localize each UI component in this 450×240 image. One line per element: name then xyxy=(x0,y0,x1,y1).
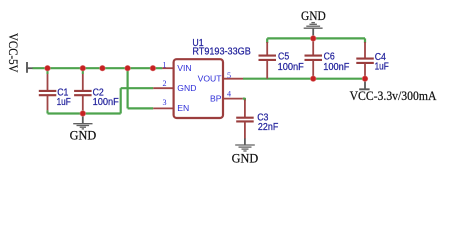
svg-text:C6: C6 xyxy=(324,52,335,63)
svg-text:5: 5 xyxy=(227,71,231,80)
wire bottom-left ground rail xyxy=(48,112,121,114)
wire GND pin riser xyxy=(120,88,122,113)
node junction dot EN branch xyxy=(125,65,131,71)
wire EN horizontal xyxy=(128,107,154,109)
svg-text:C5: C5 xyxy=(278,52,289,63)
pin 4 BP xyxy=(210,89,243,103)
IC U1 RT9193-33GB LDO regulator xyxy=(174,38,251,118)
node junction dot ground rail xyxy=(80,110,86,116)
svg-text:2: 2 xyxy=(163,79,167,88)
svg-text:100nF: 100nF xyxy=(93,97,119,108)
capacitor C3 xyxy=(236,100,278,139)
svg-text:4: 4 xyxy=(227,89,231,98)
wire top ground rail xyxy=(267,37,365,39)
node junction dot VOUT port xyxy=(362,76,368,82)
capacitor C2 xyxy=(74,68,119,113)
node junction dot mid xyxy=(99,65,105,71)
capacitor C1 xyxy=(39,68,71,113)
ground symbol left xyxy=(70,114,97,143)
svg-text:VOUT: VOUT xyxy=(198,74,223,84)
svg-text:1uF: 1uF xyxy=(375,61,389,72)
capacitor C4 xyxy=(356,42,389,79)
capacitor C6 xyxy=(305,38,350,78)
wire C5 top stub xyxy=(266,38,268,43)
wire input rail xyxy=(33,67,163,69)
svg-text:GND: GND xyxy=(232,151,259,165)
svg-text:GND: GND xyxy=(301,9,326,23)
power port VCC-5V xyxy=(6,33,33,73)
node junction dot C6 bottom xyxy=(310,76,316,82)
pin 2 GND xyxy=(153,79,196,93)
svg-text:EN: EN xyxy=(177,103,189,113)
pin 1 VIN xyxy=(162,60,191,73)
svg-text:100nF: 100nF xyxy=(323,62,349,73)
svg-text:100nF: 100nF xyxy=(278,62,304,73)
svg-text:22nF: 22nF xyxy=(258,122,278,133)
svg-text:VCC-3.3v/300mA: VCC-3.3v/300mA xyxy=(350,88,437,103)
svg-text:VCC-5V: VCC-5V xyxy=(6,33,21,73)
wire BP elbow xyxy=(243,98,245,101)
svg-text:1: 1 xyxy=(163,60,167,69)
power port VCC-3.3v xyxy=(350,79,437,103)
svg-text:BP: BP xyxy=(210,94,222,104)
node junction dot C1 top xyxy=(44,65,50,71)
capacitor C5 xyxy=(259,42,304,79)
pin 3 EN xyxy=(153,98,189,113)
ground symbol C3 xyxy=(232,138,259,165)
wire VOUT rail xyxy=(243,78,365,80)
pin 5 VOUT xyxy=(198,71,243,84)
node junction dot C2 top xyxy=(80,65,86,71)
svg-text:VIN: VIN xyxy=(177,63,191,73)
svg-text:GND: GND xyxy=(70,129,97,143)
node junction dot pin1 xyxy=(150,65,156,71)
svg-text:RT9193-33GB: RT9193-33GB xyxy=(192,46,250,57)
svg-text:GND: GND xyxy=(177,83,196,93)
wire EN riser xyxy=(126,68,128,108)
wire GND pin horizontal xyxy=(121,87,154,89)
svg-text:1uF: 1uF xyxy=(57,97,71,108)
ground symbol top right xyxy=(301,9,326,38)
svg-text:3: 3 xyxy=(163,98,167,107)
wire C4 top stub xyxy=(364,38,366,43)
node junction dot top rail C6 xyxy=(310,35,316,41)
